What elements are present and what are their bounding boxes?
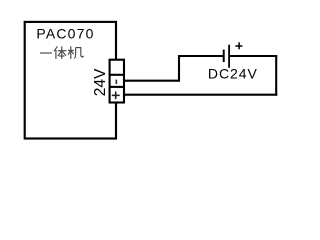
wire: top run to battery [178,55,223,57]
wire: bottom return to plus terminal [124,94,277,96]
PAC070 unit box U1 [25,22,116,139]
体 [54,46,67,59]
battery BT1 short plate (negative) [223,50,225,62]
wire: minus terminal to riser [124,80,179,82]
connector divider 1 [110,74,124,76]
svg-text:24V: 24V [92,68,109,96]
一 [40,52,52,54]
battery BT1 long plate (positive) [228,45,230,68]
svg-text:PAC070: PAC070 [36,26,93,42]
connector divider 2 [110,86,124,88]
pin label - (rotated minus: vertical dash) [115,80,117,84]
机 [68,46,84,59]
wire: left riser [178,55,180,82]
connector J1 (24V terminal block) [110,60,124,103]
svg-text:DC24V: DC24V [208,66,258,82]
pin label + [112,92,120,100]
wire: right riser [275,55,277,96]
label 一体机 (hand-drawn CJK glyphs) [40,46,84,59]
battery plus mark [235,42,242,49]
wire: battery to right riser [229,55,277,57]
